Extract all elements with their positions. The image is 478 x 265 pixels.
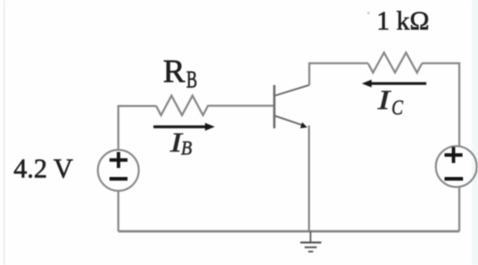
V1 minus sign: [110, 177, 128, 181]
scan edge artifact right: [472, 0, 478, 265]
svg-text:R: R: [163, 54, 185, 90]
wire: V1 bottom to bottom rail: [117, 191, 119, 232]
wire: RB to transistor base: [213, 105, 274, 107]
wire: emitter down to bottom rail: [308, 126, 310, 232]
current arrow IC: [371, 82, 426, 85]
svg-text:4.2 V: 4.2 V: [14, 154, 74, 184]
transistor Q1 emitter lead: [274, 116, 304, 126]
wire: V1 top to RB (left vertical + horizontal base segment): [118, 106, 156, 150]
resistor RB: [156, 96, 213, 116]
transistor Q1 collector lead: [274, 85, 309, 96]
voltage source V2 (right) circle: [436, 146, 477, 187]
svg-text:B: B: [181, 137, 192, 159]
wire: collector up to top rail: [309, 63, 368, 85]
svg-text:1 kΩ: 1 kΩ: [377, 5, 430, 35]
svg-text:C: C: [392, 96, 404, 120]
ground: [310, 231, 312, 242]
V2 minus sign: [445, 177, 464, 181]
scan speck: [367, 12, 370, 15]
V2 plus sign: [445, 147, 463, 163]
V1 plus sign: [110, 152, 128, 168]
resistor 1 kOhm: [368, 53, 422, 73]
wire: top rail to V2 top: [422, 63, 459, 146]
scan edge artifact left: [4, 0, 6, 265]
transistor Q1 base bar: [273, 85, 275, 128]
bottom rail wire: [118, 230, 459, 232]
transistor Q1 emitter arrowhead: [300, 122, 307, 128]
voltage source V1 (4.2 V, left) circle: [98, 150, 139, 191]
svg-text:B: B: [186, 68, 197, 94]
current arrow IB: [153, 125, 206, 128]
wire: V2 bottom to bottom rail: [458, 187, 460, 231]
